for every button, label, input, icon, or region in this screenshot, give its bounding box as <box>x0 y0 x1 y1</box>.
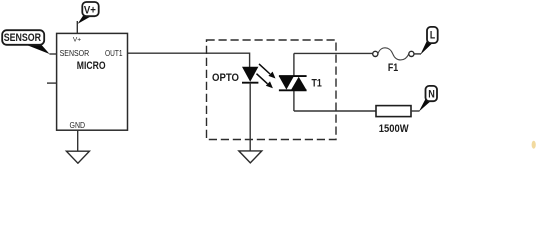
svg-text:1500W: 1500W <box>379 123 409 135</box>
wire opto to ground <box>249 83 251 151</box>
svg-text:T1: T1 <box>312 78 322 90</box>
triac T1 <box>279 76 307 90</box>
wire sensor stub <box>49 53 56 55</box>
svg-text:N: N <box>428 89 435 101</box>
light arrow 1 <box>259 64 276 79</box>
svg-text:F1: F1 <box>388 62 398 74</box>
wire triac vertical bottom <box>293 90 295 111</box>
wire resistor to N flag <box>411 110 420 112</box>
ground (micro) <box>66 151 89 163</box>
light arrow 2 <box>257 74 273 89</box>
svg-text:SENSOR: SENSOR <box>4 32 41 44</box>
wire fuse to L flag <box>414 53 421 55</box>
wire GND stub <box>77 130 79 151</box>
wire OUT1 to opto <box>128 53 250 67</box>
wire triac to fuse <box>294 52 373 54</box>
fuse F1 <box>373 48 414 60</box>
svg-text:OPTO: OPTO <box>212 72 239 84</box>
flag SENSOR <box>2 30 49 54</box>
wire triac vertical top <box>293 53 295 77</box>
wire triac to resistor <box>294 110 376 112</box>
svg-text:MICRO: MICRO <box>77 60 106 72</box>
flag N <box>419 86 437 112</box>
svg-text:L: L <box>430 29 436 41</box>
svg-text:OUT1: OUT1 <box>105 48 123 58</box>
svg-text:SENSOR: SENSOR <box>60 48 90 58</box>
wire unconnected pin stub <box>47 82 57 84</box>
flag L <box>420 27 437 55</box>
led OPTO <box>242 67 258 83</box>
svg-text:V+: V+ <box>73 37 81 44</box>
svg-text:V+: V+ <box>84 5 96 17</box>
svg-text:GND: GND <box>70 120 86 130</box>
dashed box (SSR module) <box>207 40 337 140</box>
ground (opto) <box>239 151 262 163</box>
flag V+ <box>78 2 99 24</box>
yellow smudge artifact <box>532 141 536 149</box>
micro U1 box <box>57 33 128 130</box>
wire V+ stub <box>76 21 78 33</box>
resistor 1500W <box>376 106 411 117</box>
